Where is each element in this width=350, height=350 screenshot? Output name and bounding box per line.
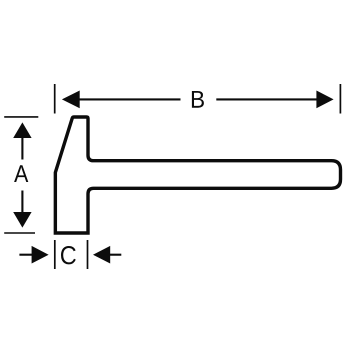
dimension C extension tick right xyxy=(87,240,89,269)
hammer outline xyxy=(55,117,340,233)
label B xyxy=(192,91,204,108)
dimension B line left segment xyxy=(79,98,181,100)
dimension A extension line top xyxy=(4,116,38,118)
dimension B extension tick left xyxy=(54,84,56,114)
dimension B extension tick right xyxy=(339,84,341,114)
dimension C right arrow xyxy=(93,246,110,264)
dimension C left arrow xyxy=(32,246,49,264)
dimension C extension tick left xyxy=(54,240,56,269)
label C xyxy=(61,246,76,264)
dimension B left arrow xyxy=(62,91,80,109)
dimension A up arrow xyxy=(13,122,31,138)
dimension B right arrow xyxy=(316,91,333,109)
dimension A down arrow xyxy=(13,212,31,228)
label A xyxy=(14,165,28,182)
dimension A extension line bottom xyxy=(4,232,35,234)
dimension B line right segment xyxy=(216,98,317,100)
